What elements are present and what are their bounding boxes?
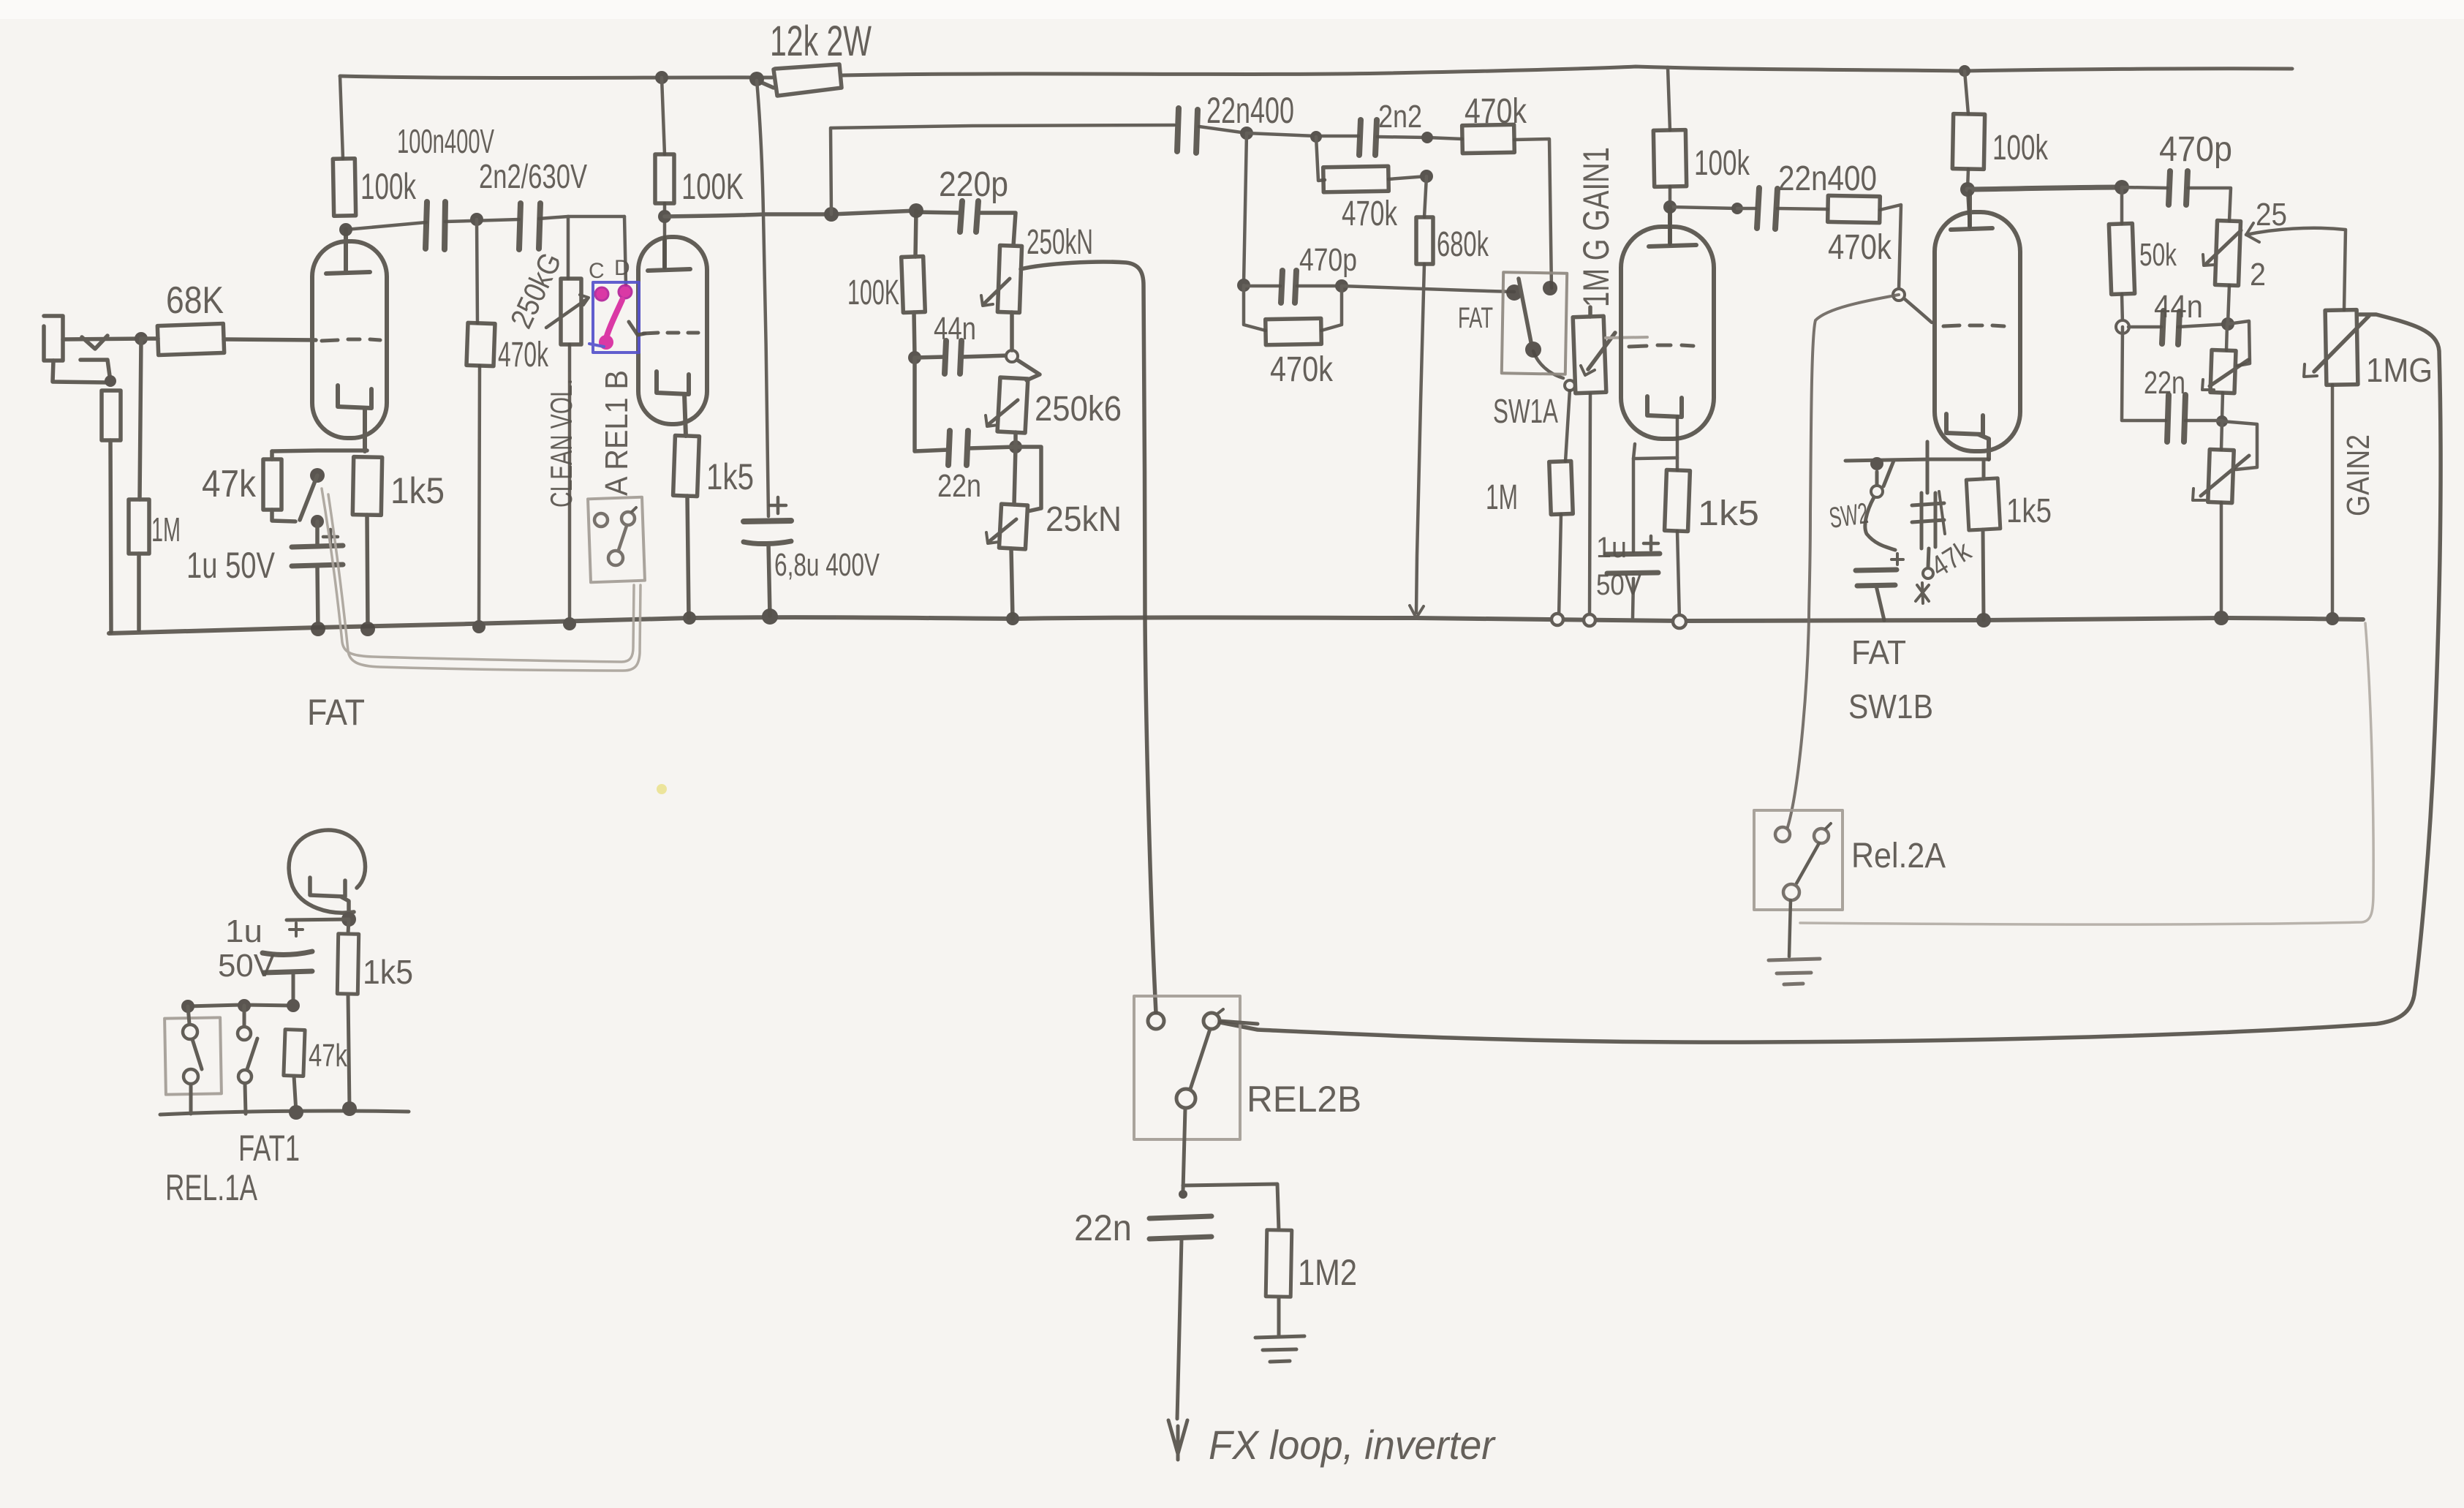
ring node GAIN1 at bus [1584,614,1595,626]
wire 25k wiper link to 1MG pot [2246,228,2346,310]
wire V3 plate lead [1669,186,1672,244]
svg-text:68K: 68K [166,279,224,322]
resistor 100K tone slope [902,256,926,312]
wire GAIN1 wiper to V3 grid (faint) [1606,337,1647,338]
resistor 470k parallel 2n2 [1323,166,1389,192]
node 22n400 branch [824,207,839,222]
circle node 250kN bottom [1006,350,1018,362]
wire 22n right lead [2185,419,2222,423]
relay REL.1A box [165,1017,222,1094]
svg-text:680k: 680k [1437,225,1489,264]
wire CLEAN VOL pot bottom to bus [568,344,572,624]
node 2n2 right [1421,132,1433,143]
svg-text:470p: 470p [1299,242,1357,278]
svg-text:FAT: FAT [307,692,365,733]
svg-text:50V: 50V [1596,569,1641,601]
svg-text:100k: 100k [360,166,417,207]
wire 25k pot bottom into 44n node [2228,285,2229,324]
resistor 47k FAT1 [284,1030,305,1077]
capacitor 44n tone [945,341,961,374]
wire pot A top lead [2226,324,2227,350]
wire B+ drop to 100k V2 [662,78,665,154]
wire 470k lower lead to bus [479,366,480,627]
svg-text:1M: 1M [151,510,181,548]
ground symbol Rel.2A [1769,959,1820,984]
svg-text:2n2: 2n2 [1378,99,1422,135]
wire 470p node to SW1A left pin (crosses 680k drop) [1342,286,1514,292]
node after 100n cap [470,213,483,226]
wire V4-grid junction long drop to Rel.2A [1788,295,1899,827]
node V2 plate [658,210,671,223]
wire 1MG pot bottom to bus [2331,385,2335,619]
node 470k coupling at bus [472,620,485,633]
node FAT1 cathode [341,912,356,927]
wire cathode jog to 1u cap [1633,458,1677,551]
resistor 47k V1 cathode [263,459,281,510]
partial tube FAT1 cathode circle [289,830,365,914]
resistor 1k5 V2 cathode [673,435,700,496]
wire V4 plate lead [1968,169,1970,227]
wire 44n#2 right lead [2178,324,2228,327]
tube V4 triode [1935,192,2020,459]
capacitor 22n FX [1149,1216,1212,1419]
wire loop right of pot A [2228,321,2250,366]
svg-text:250kN: 250kN [1027,223,1093,262]
node V2 1k5 at bus [683,611,696,625]
svg-text:470k: 470k [498,336,549,374]
ground bus main [109,617,2363,633]
capacitor 220p [960,201,978,232]
svg-text:100n400V: 100n400V [397,122,494,160]
resistor 68K input grid stopper [157,323,224,355]
svg-text:A REL1 B: A REL1 B [599,370,635,496]
svg-text:2n2/630V: 2n2/630V [479,157,587,195]
switch SW1A contacts [1506,279,1575,391]
wire 22n400 to 470k [1777,208,1828,209]
wire drop 22n400-node to 470p net [1244,133,1247,284]
switch SW2 [1865,457,1895,550]
wire 680k top lead [1424,176,1426,217]
wire 1k5 V3 bottom to bus [1677,531,1679,620]
svg-text:1u: 1u [1596,532,1627,564]
svg-text:REL2B: REL2B [1247,1079,1361,1120]
wire 2n2 to CLEAN VOL node [539,216,624,219]
node CLEAN VOL at bus [563,617,576,630]
resistor 1M2 [1266,1230,1292,1297]
node B+ at 12k left [749,72,764,86]
svg-text:1k5: 1k5 [390,470,445,511]
wire FAT1 upper rail [187,1005,293,1006]
wire 2n2 right to 470k [1378,137,1462,139]
svg-text:22n400: 22n400 [1206,90,1294,131]
wire 470k#3 loop left [1244,285,1266,331]
svg-text:50V: 50V [218,948,276,984]
node 6.8u at bus [762,608,778,625]
svg-text:22n: 22n [937,468,981,504]
wire B+ drop to 100k V3 [1668,67,1670,130]
wire V2 plate to tone network [665,211,916,216]
node 470p/50k [2115,180,2129,195]
capacitor 1u 50V V3 cathode [1606,536,1660,573]
wire REL1B to V2 grid [629,322,645,335]
resistor 12k 2W [757,64,842,96]
relay REL1B lower contacts [594,508,636,565]
svg-text:22n: 22n [2144,365,2185,401]
wire CLEAN VOL pot top lead [567,216,570,279]
svg-text:470k: 470k [1828,228,1892,267]
potentiometer CLEAN VOL 250kG [546,279,589,344]
relay REL2B contacts [1148,1009,1223,1108]
resistor 100k V1 plate load [333,159,355,216]
wire riser to 22n400 [831,125,1174,214]
svg-text:REL.1A: REL.1A [165,1167,257,1208]
paper speck [657,784,667,794]
wire cathode rail V1 [272,450,367,451]
svg-text:44n: 44n [2154,289,2203,325]
svg-text:FAT1: FAT1 [238,1128,300,1169]
svg-text:SW1A: SW1A [1493,392,1558,430]
svg-text:1u: 1u [225,913,262,949]
wire between 100n and 2n2 caps [445,219,519,222]
resistor 470k parallel 470p [1266,318,1322,344]
capacitor 22n second [2167,395,2185,442]
capacitor 2n2 630V [519,203,540,249]
svg-text:FX loop, inverter: FX loop, inverter [1209,1422,1496,1468]
wire 470k#2 left lead [1316,137,1325,181]
wire 470k top-right to SW1A [1514,139,1552,288]
svg-text:25: 25 [2256,197,2287,233]
capacitor 470p second [2169,171,2188,205]
svg-text:100k: 100k [1694,144,1750,183]
node cathode cap at bus [311,622,325,636]
node 470p right [1335,279,1348,293]
node 1k5 V1 at bus [360,622,375,636]
svg-text:FAT: FAT [1851,633,1906,671]
wire pot B bottom to bus [2220,502,2223,618]
svg-text:220p: 220p [939,165,1008,204]
potentiometer 250k6 mid [986,360,1040,433]
wire 470p right lead [1297,284,1342,288]
resistor 680k [1416,217,1433,264]
wire to 470p#2 [2122,187,2167,188]
svg-text:6,8u 400V: 6,8u 400V [774,547,880,583]
potentiometer 25k gain2 tap [2203,220,2241,285]
wire V4 plate to 470p/50k (bold) [1968,187,2122,189]
resistor 100k V3 plate [1653,130,1686,187]
wire 2n2 left lead [1247,133,1358,136]
wire pot B top lead [2221,421,2222,450]
potentiometer 1MG GAIN2 [2304,310,2369,385]
svg-text:FAT: FAT [1458,302,1493,334]
svg-text:100K: 100K [681,166,744,207]
circle node 22n right [2216,415,2228,427]
resistor 1k5 V3 cathode [1665,470,1690,531]
svg-text:1k5: 1k5 [1698,494,1759,533]
resistor 100K V2 plate load [655,154,674,203]
wire top B+ bus left segment [340,76,772,78]
svg-text:GAIN2: GAIN2 [2340,434,2376,516]
svg-text:22n: 22n [1074,1207,1132,1248]
wire 50k bottom lead [2122,294,2123,324]
svg-text:50k: 50k [2139,237,2177,273]
svg-text:47k: 47k [309,1038,348,1074]
node 250k6 bottom / 22n [1009,440,1022,453]
node 44n right [2221,317,2234,331]
capacitor 22n400 coupling [1177,108,1198,153]
capacitor 6.8u 400V [744,497,791,616]
svg-text:1u 50V: 1u 50V [186,545,275,586]
wire 44n#2 left lead [2128,325,2161,329]
svg-text:470k: 470k [1342,195,1398,233]
svg-text:470k: 470k [1465,92,1527,131]
resistor 470k coupling divider [466,323,495,366]
wire 1MG right to edge loop down to REL2B [1217,314,2441,1042]
svg-text:470p: 470p [2159,130,2232,169]
wire loop right of pot B [2222,421,2257,470]
resistor 1M V3 grid [1549,461,1573,514]
svg-text:100K: 100K [847,274,899,312]
wire 250kN wiper long drop to REL2B [1021,262,1156,1013]
capacitor 22n400 second coupling [1757,188,1777,229]
relay Rel.2A contacts [1775,823,1831,957]
wire 470k#3 loop right [1321,286,1342,331]
node 470k#2 right / 680k top [1420,170,1433,183]
svg-text:1MG: 1MG [2366,351,2433,389]
node 25kN at bus [1006,612,1019,625]
circle node 50k bottom [2116,320,2129,333]
wire V2 plate node [663,203,667,268]
svg-text:1M: 1M [1486,478,1518,517]
resistor 100k V4 plate (done above as wire) [1952,114,1984,170]
svg-text:12k 2W: 12k 2W [770,18,872,65]
wire drop to REL1B pin C [624,216,626,285]
wire 470k drop from 100n node [477,219,477,323]
wire 470k#2 right lead [1388,176,1426,179]
svg-text:100k: 100k [1992,129,2049,167]
switch FAT V1 [300,468,325,546]
node V1 plate [339,223,352,236]
node 100k/220p branch [909,203,923,218]
svg-text:C: C [589,259,605,283]
svg-text:1M G GAIN1: 1M G GAIN1 [1576,147,1617,307]
wire SW2 rail V4 cathode [1845,459,1989,461]
svg-text:SW1B: SW1B [1848,687,1933,725]
wire 1M bottom to bus [1559,514,1561,618]
resistor 1k5 V4 cathode [1966,478,2000,530]
node V3 plate [1663,200,1677,214]
wire junction to V4 grid [1904,298,1932,323]
wire pot A bottom to 22n node [2222,393,2223,420]
potentiometer 250kN treble [981,246,1022,313]
wire FAT1 bottom bus [160,1111,409,1115]
node 470p left [1237,279,1250,292]
resistor 470k series top [1462,124,1515,153]
node V4 plate [1960,182,1975,197]
relay REL1B lower grey box [588,497,645,583]
relay REL.1A contacts [183,1006,202,1114]
relay REL1B highlighted box (blue pen) [589,282,639,353]
capacitor SW2 series [1856,554,1903,620]
capacitor 44n second [2162,311,2180,344]
svg-text:CLEAN VOL.: CLEAN VOL. [544,379,578,508]
wire B+ drop to 100k V1 [340,76,343,159]
svg-text:Rel.2A: Rel.2A [1851,837,1946,875]
wire V3 plate to 22n400 [1670,207,1737,208]
capacitor 100n 400V [426,202,445,249]
wire REL2B right pin to right-edge loop [1220,1021,1258,1024]
node at 22n400 right / drop to 470p net [1240,127,1253,140]
svg-text:250k6: 250k6 [1035,390,1122,429]
node 100k bottom / 44n [908,351,921,364]
capacitor 1u 50V FAT1 [262,919,349,1006]
ring node 1M at bus [1552,614,1563,625]
input jack [44,316,316,632]
wire B+ drop to 6.8u cap (crosses plate wire) [757,80,768,516]
svg-text:25kN: 25kN [1046,500,1122,539]
capacitor 22n tone [948,431,968,465]
wire faint bus-end to Rel.2A ground [1800,623,2373,924]
resistor 470k V4 grid [1828,195,1881,222]
potentiometer 25kN bass [986,447,1041,619]
ring node 1k5 V3 at bus [1673,615,1686,628]
resistor 1k5 FAT1 [337,934,358,994]
wire SW1A out to 1M [1533,351,1563,378]
wire 470k right to V4 grid junction [1880,205,1901,290]
trimmer pot hash SW2 [1912,442,1945,603]
capacitor 2n2 second [1359,120,1377,155]
ground symbol below 1M2 [1255,1336,1304,1362]
relay Rel.2A box [1754,810,1843,910]
wire faint FAT pair to REL1B [322,489,640,671]
switch FAT1 middle [238,1006,257,1114]
node 1MG at bus [2326,612,2339,625]
svg-text:1k5: 1k5 [2006,491,2052,529]
wire B+ drop to 100k V4 [1965,71,1968,114]
relay REL2B box [1134,996,1240,1139]
node top bus / 100k V2 [655,71,668,84]
wire 50k top lead [2120,187,2124,224]
wire branch to 1M2 [1183,1184,1279,1230]
circle node V4 grid junction [1893,289,1905,301]
wire V3 cathode to 1k5 [1676,417,1679,470]
capacitor 470p [1281,271,1296,303]
resistor 50k [2109,223,2134,294]
svg-text:47k: 47k [202,463,257,505]
resistor 1k5 V1 cathode [352,457,382,516]
wire GAIN1 pot bottom to bus [1590,394,1590,618]
tube V2 triode [638,237,707,436]
tube V3 triode [1621,207,1714,439]
wire 22n400 to 2n2 node [1199,127,1247,133]
wire 470p left lead [1244,284,1280,288]
potentiometer B 22n chain [2193,449,2249,502]
wire 680k bottom to bus with arrow tick [1416,264,1424,613]
wire top B+ bus right segment [842,67,2292,75]
wire 1u cap V3 bottom to bus [1633,578,1633,618]
node pot B at bus [2214,611,2229,625]
svg-text:470k: 470k [1270,350,1334,389]
wire left branch 50k node down to 22n [2122,327,2166,421]
svg-text:SW2: SW2 [1827,497,1870,535]
wire REL2B common down [1183,1108,1185,1191]
node top bus / 100k V4 [1959,65,1970,77]
node V4 1k5 at bus [1976,613,1991,627]
capacitor 1u 50V V1 cathode [292,529,343,630]
svg-text:1M2: 1M2 [1298,1252,1357,1293]
svg-text:2: 2 [2250,257,2266,293]
potentiometer GAIN1 1MG [1573,307,1615,393]
svg-text:1k5: 1k5 [706,456,754,497]
resistor 1M input [129,499,149,554]
svg-text:44n: 44n [934,311,976,347]
svg-text:1k5: 1k5 [363,953,413,991]
wire 470p#2 right drop to 25k pot [2188,188,2231,221]
svg-text:D: D [614,256,630,280]
potentiometer A 22n chain [2202,350,2248,393]
node 470k parallel left [1310,131,1322,143]
tube V1 triode [312,230,387,451]
switch SW1A box [1502,272,1567,374]
node before 22n400 cap [1731,203,1743,214]
svg-text:22n400: 22n400 [1778,159,1877,198]
wire V1 plate node to coupling caps [346,222,426,230]
arrow FX loop out [1168,1420,1187,1460]
